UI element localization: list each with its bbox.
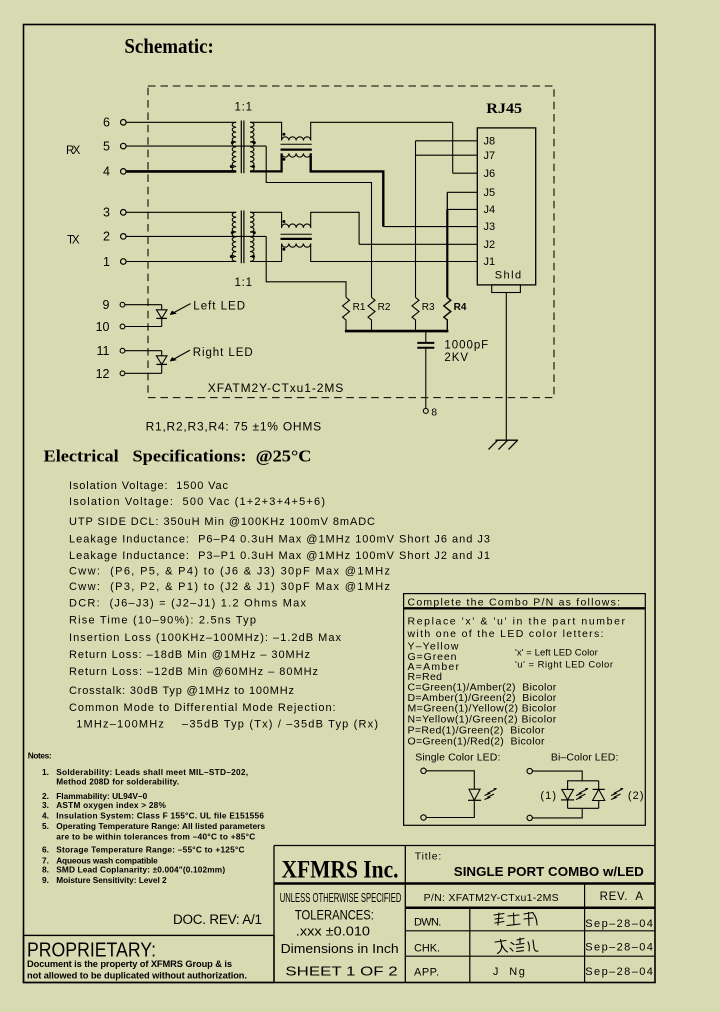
RX label: [66, 145, 81, 157]
svg-text:Replace 'x' & 'u' in the part: Replace 'x' & 'u' in the part number: [408, 616, 626, 628]
transformer T1 right winding: [250, 122, 256, 171]
svg-text:Return Loss: –12dB Min @60MHz: Return Loss: –12dB Min @60MHz – 80MHz: [69, 666, 318, 678]
choke CM1 bottom coil: [282, 153, 311, 160]
document revision: [173, 912, 262, 927]
wire T1 secondary top to choke: [250, 122, 282, 140]
capacitor C1 1000pF 2KV: [417, 331, 488, 364]
title cell: [415, 851, 644, 880]
svg-text:Cww: (P3, P2, & P1) to (J2 &: Cww: (P3, P2, & P1) to (J2 & J1) 30pF Ma…: [69, 581, 390, 593]
svg-text:J8: J8: [484, 136, 496, 148]
resistor R1: [343, 297, 366, 331]
svg-text:Crosstalk: 30dB Typ @1MHz to 1: Crosstalk: 30dB Typ @1MHz to 100MHz: [69, 685, 294, 697]
svg-text:'u' = Right LED Color: 'u' = Right LED Color: [515, 660, 613, 671]
svg-text:8.: 8.: [42, 865, 49, 875]
transformer T1 left winding: [230, 122, 236, 171]
svg-text:Sep–28–04: Sep–28–04: [585, 942, 653, 954]
wire T2 secondary top to choke: [250, 212, 282, 227]
svg-text:DWN.: DWN.: [414, 917, 441, 929]
svg-text:UTP SIDE DCL: 350uH Min @100KH: UTP SIDE DCL: 350uH Min @100KHz 100mV 8m…: [69, 516, 375, 528]
svg-text:SHEET 1 OF 2: SHEET 1 OF 2: [285, 964, 397, 979]
transformer T1 core: [241, 121, 244, 174]
svg-text:DOC. REV: A/1: DOC. REV: A/1: [173, 912, 262, 927]
svg-text:REV. A: REV. A: [600, 891, 644, 903]
wire T2 center tap to R1: [266, 236, 346, 297]
svg-text:ASTM oxygen index > 28%: ASTM oxygen index > 28%: [56, 800, 166, 810]
pin 10: [96, 320, 162, 334]
svg-text:J3: J3: [484, 221, 496, 233]
svg-text:1:1: 1:1: [235, 277, 253, 289]
svg-text:6: 6: [103, 116, 110, 130]
RJ45 connector: [477, 101, 535, 285]
pin 5: [103, 139, 266, 153]
pin 11: [97, 344, 162, 358]
pin 12: [96, 367, 162, 381]
company name XFMRS Inc.: [282, 857, 399, 884]
part number label XFATM2Y-CTxu1-2MS: [208, 381, 343, 395]
svg-text:Cww: (P6, P5, & P4) to (J6 &: Cww: (P6, P5, & P4) to (J6 & J3) 30pF Ma…: [69, 566, 390, 578]
svg-text:Notes:: Notes:: [28, 751, 52, 761]
tolerances cell: [280, 890, 402, 979]
svg-text:RJ45: RJ45: [486, 101, 522, 117]
svg-text:Return Loss: –18dB Min @1MHz –: Return Loss: –18dB Min @1MHz – 30MHz: [69, 649, 310, 661]
Left LED label and leader arrow: [170, 300, 245, 314]
transformer T1 ratio label 1:1: [235, 102, 253, 114]
svg-text:J4: J4: [484, 204, 496, 216]
resistor R2: [368, 297, 391, 331]
svg-text:R1,R2,R3,R4: 75 ±1% OHMS: R1,R2,R3,R4: 75 ±1% OHMS: [146, 419, 322, 433]
svg-text:1000pF: 1000pF: [444, 340, 488, 352]
svg-text:XFATM2Y-CTxu1-2MS: XFATM2Y-CTxu1-2MS: [208, 381, 343, 395]
pin 6: [103, 116, 236, 130]
wire J3: [383, 226, 477, 228]
svg-text:Title:: Title:: [415, 851, 442, 863]
svg-text:XFMRS Inc.: XFMRS Inc.: [282, 857, 399, 884]
pin 4 (thick wire): [103, 165, 236, 179]
svg-text:N=Yellow(1)/Green(2) Bicolor: N=Yellow(1)/Green(2) Bicolor: [408, 714, 557, 726]
svg-text:Bi–Color LED:: Bi–Color LED:: [551, 751, 619, 763]
svg-text:Solderability: Leads shall mee: Solderability: Leads shall meet MIL–STD–…: [56, 767, 248, 777]
svg-text:R1: R1: [353, 302, 366, 313]
svg-text:Leakage Inductance: P3–P1 0.3: Leakage Inductance: P3–P1 0.3uH Max @1MH…: [69, 550, 490, 562]
svg-text:RX: RX: [66, 145, 81, 157]
svg-text:R2: R2: [378, 302, 391, 313]
wire T2 secondary bottom to choke: [250, 244, 282, 262]
svg-text:SINGLE PORT COMBO w/LED: SINGLE PORT COMBO w/LED: [454, 864, 644, 879]
wire choke CM2 top to J2: [311, 212, 359, 244]
svg-text:Insertion Loss (100KHz–100MHz): Insertion Loss (100KHz–100MHz): –1.2dB M…: [69, 632, 342, 644]
svg-text:R4: R4: [454, 302, 467, 313]
svg-text:DCR: (J6–J3) = (J2–J1) 1.2 Oh: DCR: (J6–J3) = (J2–J1) 1.2 Ohms Max: [69, 598, 307, 610]
svg-text:J7: J7: [484, 150, 496, 162]
pin 2: [103, 230, 266, 244]
svg-text:R3: R3: [422, 302, 435, 313]
svg-text:Document is the property of XF: Document is the property of XFMRS Group …: [27, 959, 232, 969]
single color LED example: [421, 768, 497, 820]
svg-text:Isolation Voltage: 500 Vac (1: Isolation Voltage: 500 Vac (1+2+3+4+5+6): [69, 496, 325, 508]
chassis ground: [489, 440, 518, 449]
title: Schematic: [124, 34, 213, 58]
svg-text:P/N: XFATM2Y-CTxu1-2MS: P/N: XFATM2Y-CTxu1-2MS: [424, 892, 559, 904]
choke CM2 bottom coil: [282, 244, 311, 251]
svg-text:9.: 9.: [42, 875, 49, 885]
resistor R3: [412, 297, 435, 331]
RJ45 shield tab: [492, 285, 521, 293]
svg-text:APP.: APP.: [414, 967, 439, 979]
svg-text:5.: 5.: [42, 821, 49, 831]
dashed module outline: [148, 86, 554, 398]
signature CHK (handwritten): [495, 938, 538, 954]
combo P/N box: [404, 594, 646, 826]
wire T1 secondary bottom to choke (thick): [250, 153, 282, 171]
choke CM1 core: [281, 144, 312, 149]
svg-text:4: 4: [103, 165, 110, 179]
svg-text:(1): (1): [540, 790, 556, 802]
resistor R4: [444, 297, 467, 331]
svg-text:Common Mode to Differential Mo: Common Mode to Differential Mode Rejecti…: [69, 702, 336, 714]
svg-text:O=Green(1)/Red(2) Bicolor: O=Green(1)/Red(2) Bicolor: [408, 736, 546, 748]
svg-text:Rise Time (10–90%): 2.5ns Typ: Rise Time (10–90%): 2.5ns Typ: [69, 615, 256, 627]
wire J5: [447, 191, 477, 193]
resistor value note: [146, 419, 322, 433]
LED right: [156, 351, 167, 374]
svg-text:TOLERANCES:: TOLERANCES:: [295, 907, 374, 923]
svg-text:J5: J5: [484, 187, 496, 199]
svg-text:3.: 3.: [42, 800, 49, 810]
wire J8: [416, 140, 478, 142]
transformer T2 left winding: [230, 212, 236, 261]
svg-text:10: 10: [96, 320, 110, 334]
svg-text:Single Color LED:: Single Color LED:: [415, 751, 500, 763]
node: J6 trunk vertical: [452, 122, 454, 173]
electrical specification lines: [69, 480, 490, 731]
wire choke CM1 bottom out (thick): [311, 153, 384, 226]
wire J8/J7 trunk to R3: [415, 141, 417, 298]
choke CM1 top coil: [282, 133, 311, 141]
pin 3: [103, 206, 236, 220]
svg-text:Dimensions in Inch: Dimensions in Inch: [281, 942, 399, 956]
svg-text:Insulation System: Class F 155: Insulation System: Class F 155°C. UL fil…: [56, 810, 264, 820]
svg-text:J1: J1: [484, 256, 496, 268]
svg-text:SMD Lead Coplanarity: ±0.004"(: SMD Lead Coplanarity: ±0.004"(0.102mm): [56, 865, 225, 875]
title block grid: [274, 846, 655, 983]
node 8 terminal: [423, 406, 437, 418]
svg-text:Complete the Combo P/N as foll: Complete the Combo P/N as follows:: [408, 596, 621, 608]
svg-text:CHK.: CHK.: [414, 943, 440, 955]
svg-text:1: 1: [103, 255, 110, 269]
pin 9: [103, 298, 162, 312]
svg-text:4.: 4.: [42, 810, 49, 820]
svg-text:3: 3: [103, 206, 110, 220]
transformer T2 right winding: [250, 212, 256, 261]
svg-text:(2): (2): [628, 790, 644, 802]
svg-text:Schematic:: Schematic:: [124, 34, 213, 58]
svg-text:with one of the LED color lett: with one of the LED color letters:: [407, 628, 604, 640]
svg-text:Isolation Voltage: 1500 Vac: Isolation Voltage: 1500 Vac: [69, 480, 229, 492]
svg-text:are to be within tolerances fr: are to be within tolerances from –40°C t…: [56, 831, 255, 841]
svg-text:11: 11: [97, 344, 110, 358]
svg-text:1.: 1.: [42, 767, 49, 777]
bi-color LED example: [527, 768, 644, 820]
svg-text:6.: 6.: [42, 845, 49, 855]
combo box instructions: [407, 616, 626, 764]
TX label: [67, 235, 80, 247]
wire choke CM2 bottom to J1: [311, 244, 478, 262]
LED left: [156, 305, 167, 327]
svg-text:J6: J6: [484, 168, 496, 180]
svg-text:not allowed to be duplicated w: not allowed to be duplicated without aut…: [27, 971, 247, 981]
wire choke CM1 top to J6 trunk: [311, 122, 453, 140]
svg-text:J Ng: J Ng: [493, 966, 525, 978]
svg-text:.xxx ±0.010: .xxx ±0.010: [296, 924, 370, 939]
wire shield to ground: [505, 293, 507, 441]
svg-text:2: 2: [103, 230, 110, 244]
wire J2: [359, 243, 477, 245]
svg-text:1:1: 1:1: [235, 102, 253, 114]
svg-text:Left LED: Left LED: [193, 300, 245, 312]
svg-text:5: 5: [103, 139, 110, 153]
wire resistor bottom bus (thick): [345, 330, 449, 333]
svg-text:Leakage Inductance: P6–P4 0.3: Leakage Inductance: P6–P4 0.3uH Max @1MH…: [69, 534, 490, 546]
wire J5/J4 trunk to R4 (thick): [446, 192, 448, 297]
part number cell: [424, 891, 644, 904]
svg-text:Sep–28–04: Sep–28–04: [585, 966, 653, 978]
svg-text:Sep–28–04: Sep–28–04: [585, 918, 653, 930]
svg-text:Moisture Sensitivity: Level 2: Moisture Sensitivity: Level 2: [56, 875, 167, 885]
wire capacitor to node 8: [425, 349, 427, 409]
transformer T2 ratio label 1:1: [235, 277, 253, 289]
proprietary box: [24, 935, 275, 982]
svg-text:TX: TX: [67, 235, 80, 247]
svg-text:J2: J2: [484, 239, 496, 251]
svg-text:Shld: Shld: [495, 270, 521, 282]
svg-text:2KV: 2KV: [444, 352, 468, 364]
notes block: [28, 751, 266, 885]
svg-text:Storage Temperature Range: –55: Storage Temperature Range: –55°C to +125…: [56, 845, 244, 855]
svg-text:Method 208D for solderability.: Method 208D for solderability.: [56, 777, 179, 787]
svg-text:1MHz–100MHz –35dB Typ (Tx): 1MHz–100MHz –35dB Typ (Tx) / –35dB Typ (…: [72, 719, 378, 731]
svg-text:12: 12: [96, 367, 110, 381]
transformer T2 core: [241, 211, 244, 264]
signature DWN (handwritten): [494, 913, 537, 926]
section header: Electrical Specifications: [44, 447, 312, 466]
svg-text:'x' = Left LED Color: 'x' = Left LED Color: [515, 648, 598, 659]
svg-text:Operating Temperature Range: A: Operating Temperature Range: All listed …: [56, 821, 265, 831]
wire J7: [416, 154, 478, 156]
pin 1: [103, 255, 236, 269]
drawn/checked/approved rows: [414, 917, 653, 979]
svg-text:UNLESS OTHERWISE SPECIFIED: UNLESS OTHERWISE SPECIFIED: [280, 890, 402, 905]
svg-text:8: 8: [431, 406, 437, 418]
choke CM2 core: [281, 234, 312, 239]
svg-text:Right LED: Right LED: [193, 347, 253, 359]
Right LED label and leader arrow: [170, 347, 253, 361]
svg-text:Electrical Specifications:: Electrical Specifications: @25°C: [44, 447, 312, 466]
wire T1 center tap to R2: [266, 146, 371, 297]
choke CM2 top coil: [282, 220, 311, 228]
svg-text:9: 9: [103, 298, 110, 312]
wire J6: [453, 172, 478, 174]
wire J4: [447, 208, 477, 210]
